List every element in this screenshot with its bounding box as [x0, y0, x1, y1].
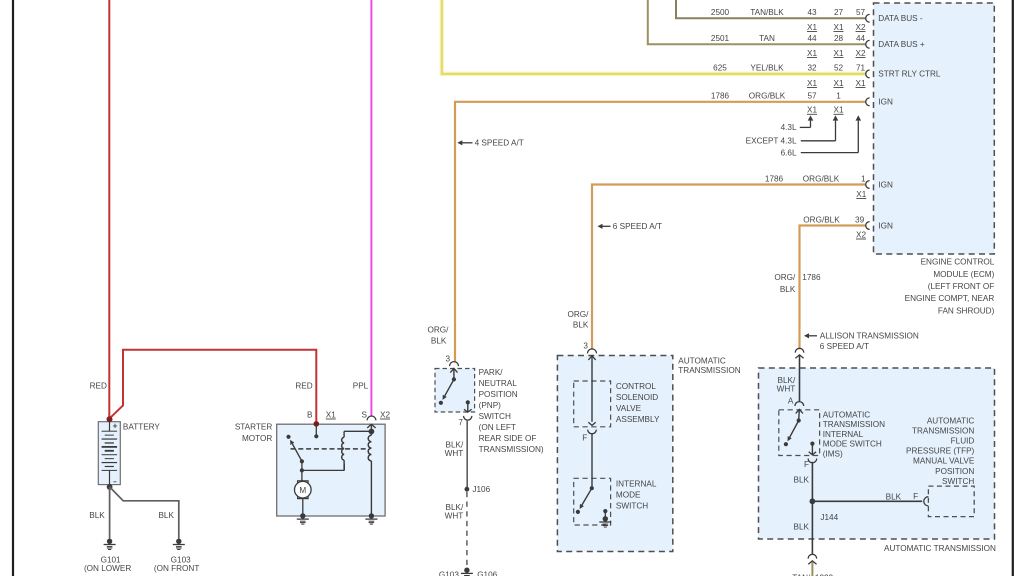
- svg-text:AUTOMATIC TRANSMISSION: AUTOMATIC TRANSMISSION: [884, 544, 996, 553]
- svg-text:1: 1: [836, 92, 841, 101]
- svg-text:TRANSMISSION: TRANSMISSION: [912, 426, 974, 435]
- svg-text:POSITION: POSITION: [935, 467, 974, 476]
- svg-text:X1: X1: [856, 190, 866, 199]
- svg-text:MODE: MODE: [616, 490, 641, 499]
- svg-text:1: 1: [861, 174, 866, 183]
- svg-text:TRANSMISSION): TRANSMISSION): [479, 445, 544, 454]
- svg-text:J144: J144: [820, 513, 838, 522]
- svg-text:ENGINE COMPT, NEAR: ENGINE COMPT, NEAR: [905, 294, 995, 303]
- svg-text:RED: RED: [295, 381, 312, 390]
- svg-text:57: 57: [856, 8, 866, 17]
- svg-text:CONTROL: CONTROL: [616, 382, 656, 391]
- svg-text:IGN: IGN: [878, 221, 893, 230]
- svg-text:M: M: [299, 486, 306, 495]
- svg-text:X2: X2: [855, 23, 865, 32]
- svg-text:(PNP): (PNP): [479, 401, 502, 410]
- svg-text:39: 39: [855, 215, 865, 224]
- svg-text:ALLISON TRANSMISSION: ALLISON TRANSMISSION: [820, 332, 919, 341]
- svg-text:625: 625: [713, 64, 727, 73]
- svg-text:MOTOR: MOTOR: [242, 434, 272, 443]
- svg-text:BLK: BLK: [886, 493, 902, 502]
- svg-text:DATA BUS -: DATA BUS -: [878, 14, 923, 23]
- svg-text:MODE SWITCH: MODE SWITCH: [823, 440, 882, 449]
- svg-text:3: 3: [583, 341, 588, 350]
- svg-text:X1: X1: [855, 79, 865, 88]
- svg-text:BLK: BLK: [573, 320, 589, 329]
- svg-text:2500: 2500: [711, 8, 730, 17]
- svg-text:BLK: BLK: [794, 475, 810, 484]
- svg-text:BLK/: BLK/: [446, 503, 464, 512]
- svg-text:PARK/: PARK/: [479, 368, 504, 377]
- svg-text:X2: X2: [856, 230, 866, 239]
- svg-text:(ON FRONT: (ON FRONT: [154, 564, 199, 573]
- svg-text:MANUAL VALVE: MANUAL VALVE: [913, 457, 975, 466]
- svg-text:EXCEPT 4.3L: EXCEPT 4.3L: [746, 137, 797, 146]
- svg-text:WHT: WHT: [445, 512, 464, 521]
- svg-text:1786: 1786: [802, 273, 821, 282]
- svg-text:1786: 1786: [765, 174, 784, 183]
- svg-text:SWITCH: SWITCH: [479, 412, 511, 421]
- svg-text:6 SPEED A/T: 6 SPEED A/T: [820, 342, 869, 351]
- svg-text:INTERNAL: INTERNAL: [616, 479, 657, 488]
- svg-text:X2: X2: [855, 49, 865, 58]
- svg-text:S: S: [361, 410, 367, 419]
- svg-text:TAN/BLK: TAN/BLK: [750, 8, 784, 17]
- svg-text:FAN SHROUD): FAN SHROUD): [938, 306, 995, 315]
- svg-text:27: 27: [834, 8, 844, 17]
- svg-text:X1: X1: [833, 23, 843, 32]
- svg-text:X1: X1: [807, 106, 817, 115]
- svg-text:71: 71: [856, 64, 866, 73]
- svg-text:ORG/BLK: ORG/BLK: [803, 215, 840, 224]
- svg-text:PRESSURE (TFP): PRESSURE (TFP): [906, 447, 975, 456]
- svg-text:B: B: [307, 410, 313, 419]
- svg-text:BLK: BLK: [158, 511, 174, 520]
- svg-text:A: A: [788, 396, 794, 405]
- svg-text:43: 43: [807, 8, 817, 17]
- svg-text:RED: RED: [90, 381, 107, 390]
- svg-text:TAN: TAN: [759, 34, 775, 43]
- svg-text:X1: X1: [833, 79, 843, 88]
- svg-text:AUTOMATIC: AUTOMATIC: [678, 356, 726, 365]
- svg-text:DATA BUS +: DATA BUS +: [878, 40, 925, 49]
- svg-text:ENGINE CONTROL: ENGINE CONTROL: [921, 258, 995, 267]
- svg-text:F: F: [913, 492, 918, 501]
- svg-text:BATTERY: BATTERY: [123, 422, 161, 431]
- svg-text:STRT RLY CTRL: STRT RLY CTRL: [878, 70, 941, 79]
- svg-text:ORG/: ORG/: [774, 273, 796, 282]
- svg-text:G106: G106: [477, 571, 497, 576]
- svg-text:ORG/: ORG/: [427, 326, 449, 335]
- svg-text:PPL: PPL: [353, 381, 369, 390]
- svg-text:X1: X1: [833, 49, 843, 58]
- svg-text:(ON LOWER: (ON LOWER: [84, 564, 131, 573]
- svg-text:WHT: WHT: [777, 385, 796, 394]
- svg-text:X2: X2: [380, 410, 390, 419]
- svg-text:SWITCH: SWITCH: [942, 477, 974, 486]
- svg-text:BLK: BLK: [780, 285, 796, 294]
- svg-text:BLK: BLK: [89, 511, 105, 520]
- svg-text:2501: 2501: [711, 34, 730, 43]
- svg-text:SWITCH: SWITCH: [616, 501, 648, 510]
- svg-text:X1: X1: [807, 49, 817, 58]
- svg-text:44: 44: [807, 34, 817, 43]
- svg-text:52: 52: [834, 64, 844, 73]
- svg-text:4 SPEED A/T: 4 SPEED A/T: [475, 139, 524, 148]
- svg-text:3: 3: [446, 355, 451, 364]
- svg-text:7: 7: [458, 418, 463, 427]
- svg-text:6.6L: 6.6L: [781, 148, 797, 157]
- svg-text:ORG/BLK: ORG/BLK: [803, 174, 840, 183]
- svg-text:NEUTRAL: NEUTRAL: [479, 379, 518, 388]
- svg-text:6 SPEED A/T: 6 SPEED A/T: [613, 222, 662, 231]
- svg-text:28: 28: [834, 34, 844, 43]
- svg-text:X1: X1: [807, 23, 817, 32]
- svg-text:X1: X1: [326, 410, 336, 419]
- svg-text:INTERNAL: INTERNAL: [823, 430, 864, 439]
- svg-text:1786: 1786: [711, 92, 730, 101]
- svg-text:(LEFT FRONT OF: (LEFT FRONT OF: [928, 282, 995, 291]
- svg-text:AUTOMATIC: AUTOMATIC: [927, 416, 975, 425]
- svg-text:BLK: BLK: [431, 336, 447, 345]
- svg-text:57: 57: [807, 92, 817, 101]
- svg-text:REAR SIDE OF: REAR SIDE OF: [479, 434, 537, 443]
- svg-text:44: 44: [856, 34, 866, 43]
- svg-text:(ON LEFT: (ON LEFT: [479, 423, 516, 432]
- svg-text:IGN: IGN: [878, 98, 893, 107]
- svg-text:ORG/BLK: ORG/BLK: [749, 92, 786, 101]
- svg-text:BLK: BLK: [794, 522, 810, 531]
- svg-text:ORG/: ORG/: [567, 310, 589, 319]
- svg-text:F: F: [582, 433, 587, 442]
- svg-text:X1: X1: [833, 106, 843, 115]
- svg-text:SOLENOID: SOLENOID: [616, 393, 658, 402]
- svg-text:+: +: [113, 422, 118, 431]
- svg-text:TRANSMISSION: TRANSMISSION: [823, 420, 885, 429]
- svg-text:ASSEMBLY: ASSEMBLY: [616, 415, 660, 424]
- svg-text:J106: J106: [472, 485, 490, 494]
- svg-text:STARTER: STARTER: [235, 422, 273, 431]
- svg-text:WHT: WHT: [445, 449, 464, 458]
- svg-text:YEL/BLK: YEL/BLK: [750, 64, 784, 73]
- svg-text:AUTOMATIC: AUTOMATIC: [823, 410, 871, 419]
- svg-text:(IMS): (IMS): [823, 450, 843, 459]
- svg-text:POSITION: POSITION: [479, 390, 518, 399]
- svg-text:FLUID: FLUID: [951, 437, 975, 446]
- svg-text:TRANSMISSION: TRANSMISSION: [678, 366, 740, 375]
- svg-text:G103: G103: [439, 571, 459, 576]
- svg-text:IGN: IGN: [878, 180, 893, 189]
- svg-text:MODULE (ECM): MODULE (ECM): [933, 270, 994, 279]
- svg-text:X1: X1: [807, 79, 817, 88]
- svg-text:F: F: [804, 460, 809, 469]
- svg-text:32: 32: [807, 64, 817, 73]
- svg-text:4.3L: 4.3L: [781, 123, 797, 132]
- svg-text:BLK/: BLK/: [778, 376, 796, 385]
- svg-text:VALVE: VALVE: [616, 404, 642, 413]
